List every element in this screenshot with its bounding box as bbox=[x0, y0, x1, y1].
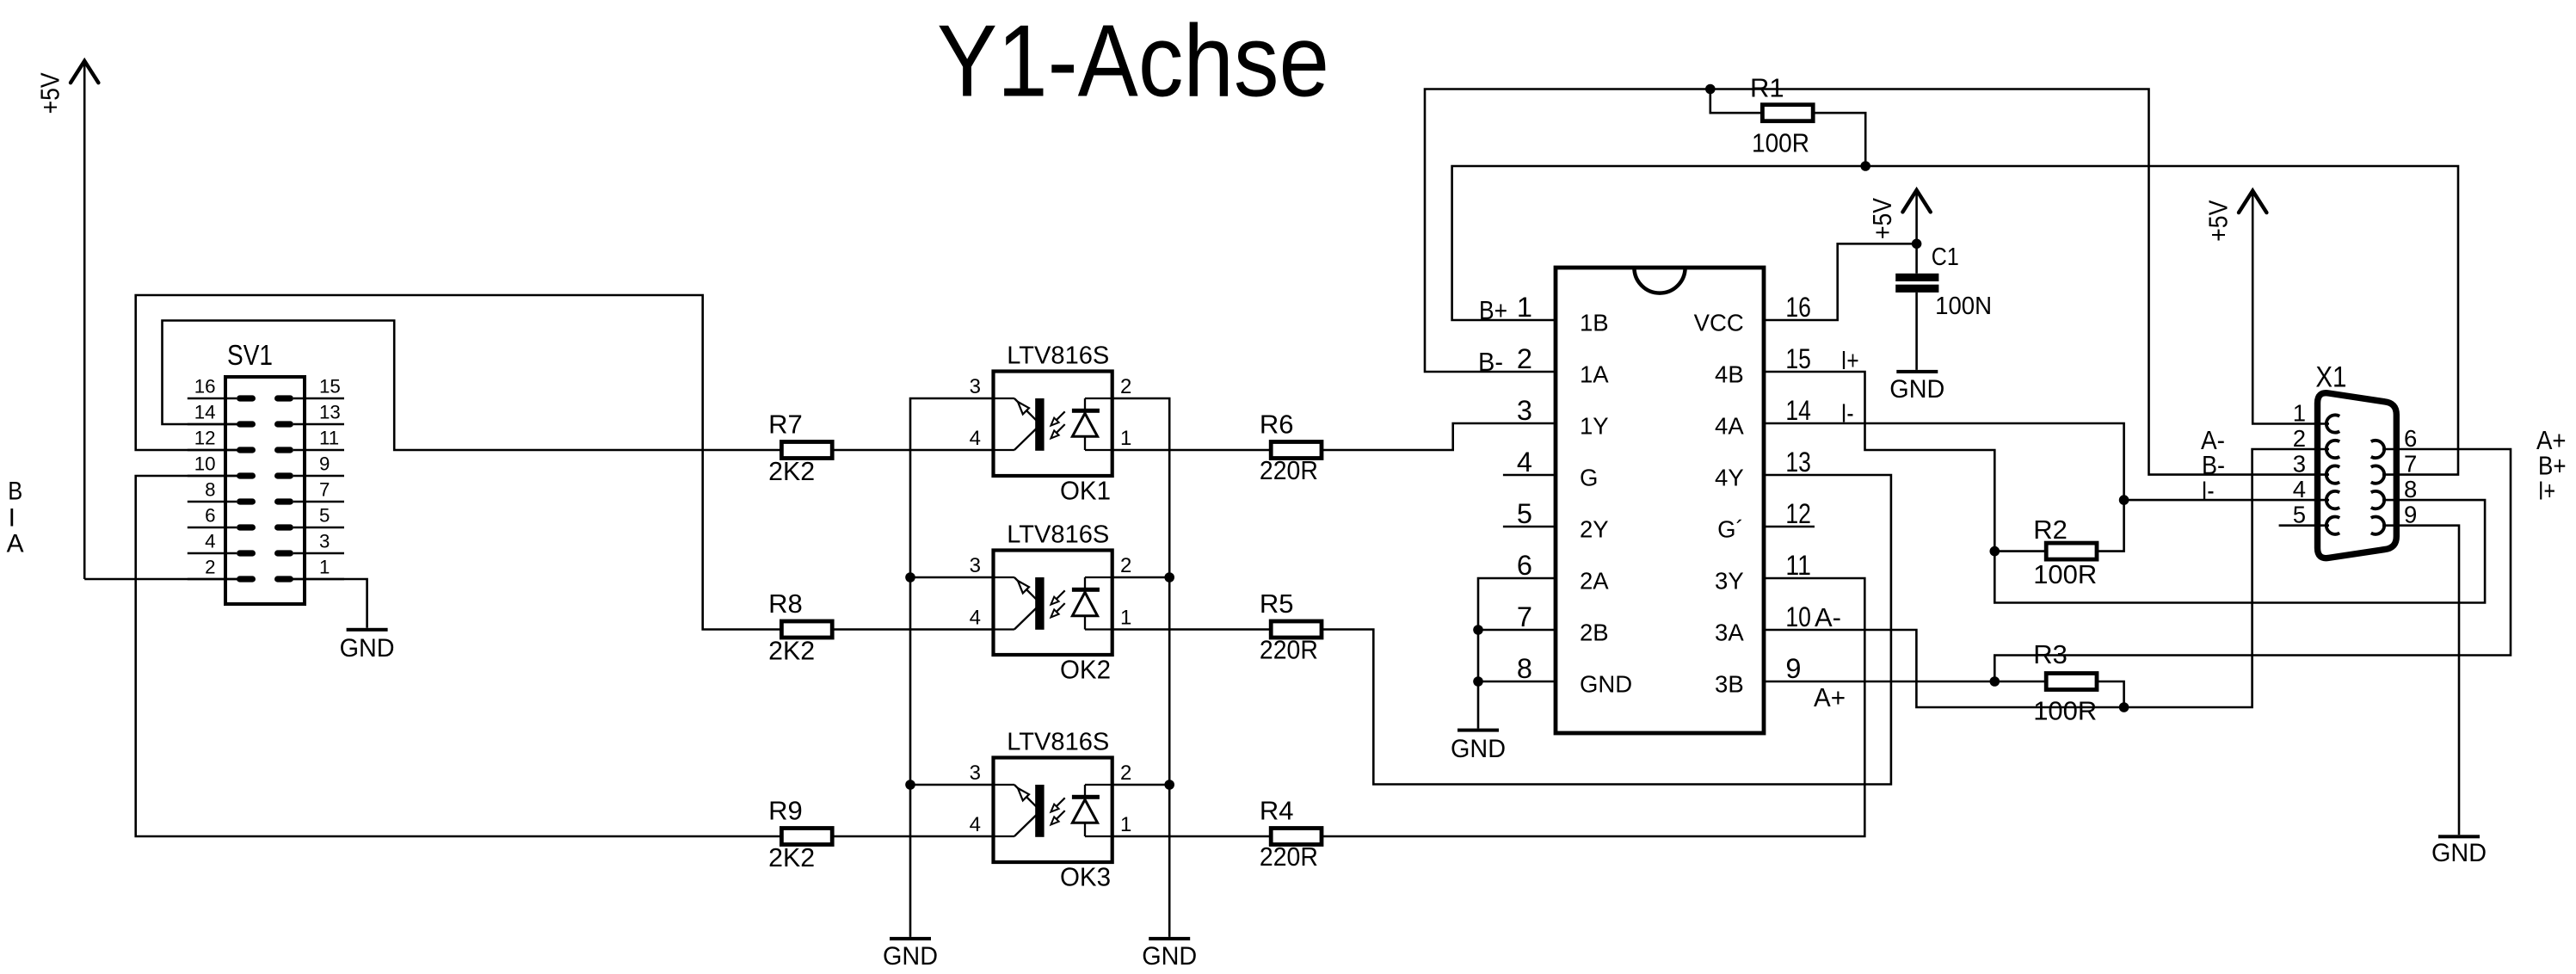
junction VCC / +5V / C1 bbox=[1912, 239, 1922, 250]
svg-text:I+: I+ bbox=[2538, 476, 2555, 506]
wire optocoupler to R4 bbox=[1112, 835, 1271, 838]
svg-text:OK3: OK3 bbox=[1060, 862, 1111, 892]
svg-text:1Y: 1Y bbox=[1580, 413, 1609, 440]
junction right bus / OK3 pin2 bbox=[1164, 780, 1174, 790]
svg-text:G: G bbox=[1580, 465, 1598, 491]
svg-text:G´: G´ bbox=[1717, 516, 1744, 543]
svg-text:4: 4 bbox=[1517, 447, 1532, 478]
X1 label bbox=[2315, 361, 2346, 393]
svg-text:SV1: SV1 bbox=[227, 340, 273, 372]
svg-text:2K2: 2K2 bbox=[768, 636, 815, 666]
X1 pin5 stub bbox=[2279, 524, 2329, 527]
net label B+ (IC pin1) bbox=[1479, 295, 1507, 325]
svg-text:+5V: +5V bbox=[2203, 200, 2234, 241]
net label B- (X1 pin3) bbox=[2202, 450, 2225, 480]
junction R2 right / I- bbox=[2119, 495, 2129, 505]
svg-text:12: 12 bbox=[194, 428, 216, 449]
svg-text:3: 3 bbox=[970, 554, 981, 577]
svg-text:8: 8 bbox=[205, 479, 215, 501]
svg-text:3A: 3A bbox=[1715, 620, 1744, 646]
net label I- (X1 pin4) bbox=[2202, 475, 2215, 505]
resistor R5 bbox=[1260, 589, 1322, 665]
resistor R1 bbox=[1750, 73, 1813, 158]
svg-text:100N: 100N bbox=[1935, 293, 1992, 320]
svg-text:6: 6 bbox=[1517, 550, 1532, 581]
net label I- (IC pin14) bbox=[1841, 398, 1854, 428]
svg-text:GND: GND bbox=[1580, 671, 1632, 698]
svg-text:I-: I- bbox=[2202, 475, 2215, 505]
svg-text:R4: R4 bbox=[1260, 796, 1294, 826]
OK3 pin numbers bbox=[970, 761, 1132, 836]
wire I+ net: IC pin15 to X1 pin8 bbox=[1764, 372, 2485, 603]
resistor R9 bbox=[768, 796, 832, 873]
OK1 pin numbers bbox=[970, 375, 1132, 450]
net label A+ (right) bbox=[2536, 425, 2567, 455]
svg-text:LTV816S: LTV816S bbox=[1007, 521, 1109, 549]
title Y1-Achse bbox=[937, 3, 1329, 118]
OK2 reference label bbox=[1060, 655, 1111, 685]
ground (SV1 pin1) bbox=[340, 628, 395, 663]
svg-text:2B: 2B bbox=[1580, 620, 1609, 646]
connector SV1 bbox=[188, 377, 344, 604]
net label B+ (right) bbox=[2538, 451, 2567, 481]
svg-text:1: 1 bbox=[1120, 427, 1131, 450]
svg-text:1B: 1B bbox=[1580, 310, 1609, 336]
resistor R2 bbox=[2033, 515, 2097, 589]
svg-text:3: 3 bbox=[1517, 395, 1532, 426]
svg-text:100R: 100R bbox=[2033, 696, 2097, 726]
svg-text:6: 6 bbox=[2404, 425, 2417, 452]
svg-text:4: 4 bbox=[970, 607, 981, 630]
IC pin numbers bbox=[1517, 292, 1811, 684]
net label I bbox=[9, 504, 15, 533]
svg-text:3: 3 bbox=[319, 531, 330, 552]
net label A- (IC pin10) bbox=[1815, 602, 1841, 632]
svg-text:13: 13 bbox=[319, 402, 341, 423]
svg-text:4: 4 bbox=[205, 531, 215, 552]
wire B+ net: rail to IC pin1 and X1 pin7 bbox=[1452, 166, 2458, 475]
svg-text:GND: GND bbox=[2431, 839, 2487, 867]
junction IC pin7 bbox=[1473, 625, 1483, 635]
svg-text:15: 15 bbox=[1785, 343, 1811, 374]
svg-text:3B: 3B bbox=[1715, 671, 1744, 698]
svg-text:I+: I+ bbox=[1841, 345, 1859, 375]
wire IC pins 6,7,8 to ground bbox=[1478, 578, 1556, 729]
OK1 type label LTV816S bbox=[1007, 342, 1109, 370]
junction R2 left / I+ bbox=[1990, 546, 2000, 557]
wire R6 to IC pin3 bbox=[1322, 423, 1556, 450]
ground (left opto bus) bbox=[883, 937, 938, 971]
optocoupler OK2 (LTV816S) bbox=[994, 551, 1112, 656]
wire A+ net: R3 to X1 pin6 bbox=[1994, 449, 2511, 681]
ground (IC pin8) bbox=[1451, 729, 1506, 763]
junction R1 left / B- rail bbox=[1705, 84, 1716, 95]
svg-text:220R: 220R bbox=[1260, 635, 1318, 665]
svg-text:1: 1 bbox=[2293, 400, 2306, 427]
svg-text:2: 2 bbox=[1120, 375, 1131, 398]
svg-text:11: 11 bbox=[1785, 550, 1811, 581]
OK3 reference label bbox=[1060, 862, 1111, 892]
svg-text:LTV816S: LTV816S bbox=[1007, 729, 1109, 756]
svg-text:220R: 220R bbox=[1260, 455, 1318, 485]
wire R9 to optocoupler bbox=[833, 835, 993, 838]
svg-text:8: 8 bbox=[1517, 653, 1532, 684]
svg-text:100R: 100R bbox=[1752, 128, 1809, 158]
svg-text:3: 3 bbox=[970, 375, 981, 398]
resistor R6 bbox=[1260, 410, 1322, 486]
net label A bbox=[7, 530, 24, 558]
net label B bbox=[8, 478, 22, 506]
wire R5 to IC pin13 bbox=[1322, 475, 1891, 785]
resistor R4 bbox=[1260, 796, 1322, 872]
svg-text:2: 2 bbox=[1517, 343, 1532, 374]
svg-text:R7: R7 bbox=[768, 410, 803, 440]
wire A+ net: IC pin9 to R3 bbox=[1764, 681, 2045, 683]
resistor R8 bbox=[768, 589, 832, 666]
svg-text:5: 5 bbox=[1517, 498, 1532, 529]
svg-text:9: 9 bbox=[1785, 653, 1801, 684]
junction R3 right / A- bbox=[2119, 702, 2129, 712]
net label I+ (IC pin15) bbox=[1841, 345, 1859, 375]
svg-text:C1: C1 bbox=[1932, 243, 1959, 271]
svg-text:1: 1 bbox=[319, 557, 330, 578]
wire SV1 pin10 to R9 bbox=[136, 476, 781, 836]
svg-text:2A: 2A bbox=[1580, 568, 1609, 595]
svg-text:10: 10 bbox=[194, 453, 216, 475]
svg-text:12: 12 bbox=[1785, 498, 1811, 529]
svg-text:3: 3 bbox=[2293, 451, 2306, 478]
net label B- (IC pin2) bbox=[1478, 347, 1503, 377]
wire R8 to optocoupler bbox=[833, 628, 993, 631]
svg-text:5: 5 bbox=[2293, 502, 2306, 528]
wire R3 right lead bbox=[2098, 681, 2124, 707]
svg-text:R5: R5 bbox=[1260, 589, 1294, 619]
OK1 reference label bbox=[1060, 476, 1111, 506]
junction left bus / OK3 pin3 bbox=[905, 780, 915, 790]
svg-text:R9: R9 bbox=[768, 796, 803, 826]
capacitor C1 bbox=[1895, 243, 1992, 370]
svg-text:2: 2 bbox=[1120, 761, 1131, 785]
svg-text:100R: 100R bbox=[2033, 559, 2097, 589]
svg-text:OK2: OK2 bbox=[1060, 655, 1111, 685]
svg-text:3Y: 3Y bbox=[1715, 568, 1744, 595]
wire SV1 pin14 to R7 bbox=[163, 321, 782, 451]
SV1 pin numbers bbox=[194, 376, 341, 578]
wire optocoupler to R6 bbox=[1112, 449, 1271, 452]
svg-text:11: 11 bbox=[319, 428, 339, 449]
resistor R3 bbox=[2033, 639, 2097, 726]
svg-text:15: 15 bbox=[319, 376, 341, 398]
svg-text:5: 5 bbox=[319, 505, 330, 527]
svg-text:13: 13 bbox=[1785, 447, 1811, 478]
svg-text:7: 7 bbox=[1517, 601, 1532, 632]
OK2 pin numbers bbox=[970, 554, 1132, 630]
wire IC pin16 VCC to +5V bbox=[1764, 243, 1917, 320]
svg-text:2: 2 bbox=[205, 557, 215, 578]
+5V supply (X1 pin1) bbox=[2203, 191, 2329, 424]
svg-text:GND: GND bbox=[340, 634, 395, 663]
svg-text:2K2: 2K2 bbox=[768, 842, 815, 872]
svg-text:9: 9 bbox=[319, 453, 330, 475]
svg-text:1: 1 bbox=[1517, 292, 1532, 323]
svg-text:R6: R6 bbox=[1260, 410, 1294, 440]
svg-text:220R: 220R bbox=[1260, 841, 1318, 872]
wire R1 leads bbox=[1710, 89, 1865, 167]
svg-text:+5V: +5V bbox=[35, 72, 65, 114]
svg-text:7: 7 bbox=[319, 479, 330, 501]
wire A- net: IC pin10 to X1 pin2 bbox=[1764, 449, 2329, 707]
svg-text:2: 2 bbox=[2293, 425, 2306, 452]
svg-text:B+: B+ bbox=[1479, 295, 1507, 325]
svg-text:4B: 4B bbox=[1715, 361, 1744, 388]
net label A+ (IC pin9) bbox=[1814, 682, 1846, 712]
svg-text:GND: GND bbox=[1142, 942, 1197, 971]
svg-text:R8: R8 bbox=[768, 589, 803, 619]
wire X1 pin9 to ground bbox=[2382, 526, 2459, 835]
wire R4 to IC pin11 bbox=[1322, 578, 1864, 836]
svg-text:16: 16 bbox=[1785, 292, 1811, 323]
OK2 type label LTV816S bbox=[1007, 521, 1109, 549]
wire SV1 pin12 to R8 bbox=[136, 295, 781, 630]
svg-text:16: 16 bbox=[194, 376, 216, 398]
wire I- net: IC pin14 to X1 pin4 bbox=[1764, 423, 2329, 500]
svg-text:7: 7 bbox=[2404, 451, 2417, 478]
svg-text:9: 9 bbox=[2404, 502, 2417, 528]
X1 pin numbers bbox=[2293, 400, 2418, 528]
wire R2 leads bbox=[1994, 500, 2123, 552]
wire optocoupler to R5 bbox=[1112, 628, 1271, 631]
svg-text:GND: GND bbox=[1889, 375, 1944, 404]
wire left opto bus (pins 3) bbox=[910, 398, 994, 937]
svg-text:B: B bbox=[8, 478, 22, 506]
resistor R7 bbox=[768, 410, 832, 487]
svg-text:I-: I- bbox=[1841, 398, 1854, 428]
svg-text:2: 2 bbox=[1120, 554, 1131, 577]
wire right opto bus (pins 2) bbox=[1112, 398, 1170, 937]
wire B- net: rail to IC pin2 and X1 pin3 bbox=[1425, 89, 2329, 475]
svg-text:4: 4 bbox=[970, 813, 981, 836]
net label A- (X1 pin2) bbox=[2201, 425, 2225, 455]
svg-text:LTV816S: LTV816S bbox=[1007, 342, 1109, 370]
svg-text:1: 1 bbox=[1120, 813, 1131, 836]
svg-text:2K2: 2K2 bbox=[768, 456, 815, 486]
wire R7 to optocoupler bbox=[833, 449, 993, 452]
junction right bus / OK2 pin2 bbox=[1164, 572, 1174, 583]
svg-text:14: 14 bbox=[1785, 395, 1811, 426]
svg-text:3: 3 bbox=[970, 761, 981, 785]
junction IC pin8 bbox=[1473, 676, 1483, 687]
svg-text:A: A bbox=[7, 530, 24, 558]
ground (right opto bus) bbox=[1142, 937, 1197, 971]
svg-text:OK1: OK1 bbox=[1060, 476, 1111, 506]
+5V supply (above C1) bbox=[1867, 190, 1931, 243]
wire SV1 pin2 to +5V bbox=[84, 578, 241, 581]
svg-text:4A: 4A bbox=[1715, 413, 1744, 440]
junction left bus / OK2 pin3 bbox=[905, 572, 915, 583]
net label I+ (right) bbox=[2538, 476, 2555, 506]
+5V supply (left) bbox=[35, 61, 99, 579]
svg-text:B-: B- bbox=[1478, 347, 1503, 377]
junction R1 right / B+ rail bbox=[1860, 161, 1870, 171]
svg-text:1A: 1A bbox=[1580, 361, 1609, 388]
svg-text:R2: R2 bbox=[2033, 515, 2068, 545]
svg-text:4: 4 bbox=[970, 427, 981, 450]
svg-text:I: I bbox=[9, 504, 15, 533]
svg-text:X1: X1 bbox=[2315, 361, 2346, 393]
OK3 type label LTV816S bbox=[1007, 729, 1109, 756]
svg-text:+5V: +5V bbox=[1867, 198, 1897, 239]
junction R3 left / A+ bbox=[1990, 676, 2000, 687]
svg-text:VCC: VCC bbox=[1694, 310, 1744, 336]
svg-text:4: 4 bbox=[2293, 476, 2306, 502]
svg-text:4Y: 4Y bbox=[1715, 465, 1744, 491]
svg-text:10: 10 bbox=[1785, 601, 1811, 632]
svg-text:GND: GND bbox=[883, 942, 938, 971]
svg-text:GND: GND bbox=[1451, 735, 1506, 763]
IC pin names bbox=[1580, 310, 1744, 698]
svg-text:8: 8 bbox=[2404, 476, 2417, 502]
IC pin stubs (unconnected pins 4,5,12) bbox=[1503, 475, 1815, 527]
connector X1 (DB9) bbox=[2318, 393, 2397, 558]
IC U1 line driver body bbox=[1556, 268, 1764, 733]
optocoupler OK3 (LTV816S) bbox=[994, 758, 1112, 863]
svg-text:A-: A- bbox=[1815, 602, 1841, 632]
svg-text:Y1-Achse: Y1-Achse bbox=[937, 3, 1329, 118]
svg-text:2Y: 2Y bbox=[1580, 516, 1609, 543]
wire SV1 pin1 to ground bbox=[289, 579, 367, 628]
optocoupler OK1 (LTV816S) bbox=[994, 372, 1112, 477]
svg-text:1: 1 bbox=[1120, 607, 1131, 630]
ground (X1 pin9) bbox=[2431, 835, 2487, 867]
svg-text:14: 14 bbox=[194, 402, 216, 423]
svg-text:6: 6 bbox=[205, 505, 215, 527]
svg-text:R1: R1 bbox=[1750, 73, 1784, 103]
svg-text:A+: A+ bbox=[1814, 682, 1846, 712]
ground (C1) bbox=[1889, 370, 1944, 404]
SV1 label bbox=[227, 340, 273, 372]
